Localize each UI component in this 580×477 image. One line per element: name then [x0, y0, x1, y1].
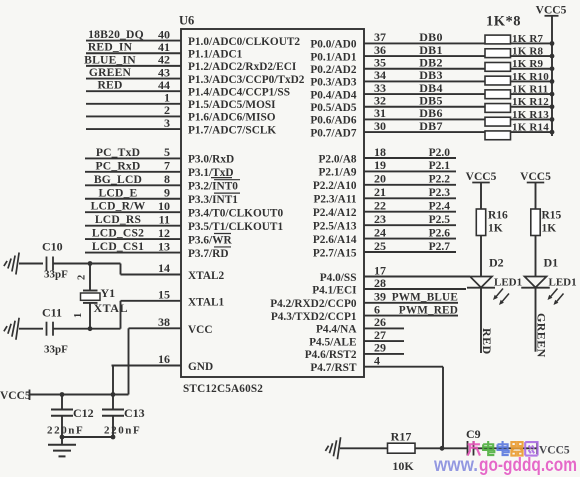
resistor R13 (1K) — [485, 117, 511, 126]
svg-text:P2.4/A12: P2.4/A12 — [313, 207, 357, 219]
svg-text:PC_RxD: PC_RxD — [96, 159, 141, 172]
wire pin 22 net P2.4 — [364, 199, 456, 213]
wire pin 36 net DB1 — [364, 43, 552, 57]
wire ground to R17 — [340, 447, 388, 449]
IC U6 pin label P4.3/TXD2/CCP1 — [271, 311, 357, 323]
resistor R11 (1K) — [485, 90, 511, 99]
svg-text:1K R14: 1K R14 — [512, 121, 549, 133]
junction dot DB6 / VCC5 rail — [550, 117, 555, 122]
wire pin 18 net P2.0 — [364, 145, 456, 159]
wire pin 5 net PC_TxD — [85, 145, 181, 159]
svg-text:D1: D1 — [544, 256, 559, 270]
IC U6 pin label P2.5/A13 — [313, 220, 357, 232]
svg-text:P4.7/RST: P4.7/RST — [310, 362, 357, 374]
svg-text:P2.0: P2.0 — [429, 147, 451, 159]
crystal Y1 pin 1 label — [73, 313, 84, 318]
wire pin 15 XTAL1 — [121, 287, 182, 301]
junction dot C12 top — [60, 392, 65, 397]
svg-text:4: 4 — [374, 354, 380, 368]
IC U6 pin label P4.7/RST — [310, 362, 357, 374]
wire pin 24 net P2.6 — [364, 225, 456, 239]
svg-text:P0.3/AD3: P0.3/AD3 — [310, 77, 356, 89]
IC U6 pin label P3.0/RxD — [188, 154, 234, 166]
svg-text:1K R9: 1K R9 — [512, 58, 544, 70]
resistor R10 (1K) — [485, 76, 511, 85]
resistor R14 (1K) — [485, 131, 511, 140]
svg-text:1K: 1K — [542, 223, 557, 235]
wire GND drop from pin 16 — [112, 366, 114, 395]
svg-text:GND: GND — [188, 361, 213, 373]
wire pin 13 net LCD_CS1 — [85, 239, 181, 253]
wire ground to C10 — [19, 263, 43, 265]
wire pin 6 net PWM_RED — [364, 302, 458, 316]
watermark www.go-gddq.com — [433, 455, 577, 476]
IC U6 pin label P2.3/A11 — [314, 194, 357, 206]
wire pin 8 net BG_LCD — [85, 172, 181, 186]
svg-text:P2.2/A10: P2.2/A10 — [313, 180, 357, 192]
IC U6 pin label P3.2/INT0 — [188, 180, 240, 193]
svg-text:1K R12: 1K R12 — [512, 96, 549, 108]
svg-text:P1.7/ADC7/SCLK: P1.7/ADC7/SCLK — [188, 124, 276, 136]
svg-text:VCC5: VCC5 — [536, 4, 567, 16]
LED D1 refdes — [544, 256, 559, 270]
svg-text:P2.6: P2.6 — [429, 227, 451, 239]
svg-text:Y1: Y1 — [101, 286, 116, 300]
svg-text:15: 15 — [158, 287, 170, 301]
wire pin 25 net P2.7 — [364, 239, 456, 253]
svg-text:P2.4: P2.4 — [429, 201, 451, 213]
svg-text:U6: U6 — [179, 14, 194, 28]
capacitor C11 (33pF) — [42, 306, 68, 356]
svg-text:P4.6/RST2: P4.6/RST2 — [305, 349, 357, 361]
IC U6 pin label P1.0/ADC0/CLKOUT2 — [188, 36, 300, 48]
crystal Y1 (XTAL) — [81, 264, 101, 329]
power VCC5 label (bottom left) — [0, 390, 31, 403]
watermark colored characters — [468, 441, 538, 456]
resistor R12 (1K) — [485, 104, 511, 113]
wire pin 20 net P2.2 — [364, 172, 456, 186]
resistor R12 value label — [512, 96, 549, 108]
capacitor C9 — [466, 427, 481, 456]
svg-text:P0.4/AD4: P0.4/AD4 — [310, 89, 356, 101]
IC U6 pin label P2.6/A14 — [313, 234, 357, 246]
wire pin 2 — [86, 103, 181, 117]
LED D2 — [467, 277, 509, 306]
svg-text:LCD_CS1: LCD_CS1 — [92, 240, 144, 253]
svg-text:VCC5: VCC5 — [466, 171, 497, 183]
svg-text:P4.1/ECI: P4.1/ECI — [312, 284, 357, 296]
IC U6 pin label P2.1/A9 — [319, 167, 357, 179]
svg-text:PWM_RED: PWM_RED — [399, 304, 458, 316]
wire pin 16 GND — [112, 352, 182, 366]
IC U6 pin label P4.2/RXD2/CCP0 — [270, 298, 357, 310]
junction dot DB3 / VCC5 rail — [550, 79, 555, 84]
svg-text:13: 13 — [158, 239, 170, 253]
wire pin 14 XTAL2 — [121, 261, 182, 275]
svg-text:38: 38 — [158, 315, 170, 329]
svg-text:24: 24 — [374, 225, 386, 239]
svg-text:LCD_E: LCD_E — [98, 186, 137, 199]
svg-text:11: 11 — [159, 212, 170, 226]
svg-text:P3.7/RD: P3.7/RD — [188, 248, 228, 260]
svg-text:P1.2/ADC2/RxD2/ECI: P1.2/ADC2/RxD2/ECI — [188, 61, 297, 73]
LED D1 — [521, 277, 563, 306]
IC U6 pin label P2.0/A8 — [319, 153, 357, 165]
wire R17 to reset node — [415, 447, 442, 449]
junction dot C13 top — [111, 392, 116, 397]
svg-text:VCC: VCC — [188, 324, 212, 336]
resistor R7 value label — [512, 33, 544, 45]
resistor R16 (1K) — [476, 209, 508, 236]
resistor R13 value label — [512, 109, 549, 121]
wire pin 1 — [86, 91, 181, 105]
svg-text:VCC5: VCC5 — [520, 171, 551, 183]
svg-text:P2.1: P2.1 — [429, 160, 451, 172]
svg-text:GREEN: GREEN — [89, 66, 132, 79]
wire reset node to C9 — [442, 447, 468, 449]
wire VCC5 rail bottom — [30, 394, 129, 396]
ground (C10) — [4, 253, 19, 275]
IC U6 pin label P2.4/A12 — [313, 207, 357, 219]
IC U6 pin label XTAL1 — [188, 297, 225, 309]
svg-text:P0.5/AD5: P0.5/AD5 — [310, 102, 356, 114]
capacitor C12 (220nF) — [47, 395, 94, 438]
wire pin 35 net DB2 — [364, 56, 552, 70]
IC U6 pin label P3.6/WR — [188, 234, 232, 247]
wire pin 29 — [364, 341, 404, 355]
svg-text:5: 5 — [164, 145, 170, 159]
svg-text:P2.2: P2.2 — [429, 174, 451, 186]
power VCC5 rail (resistor pack) — [536, 4, 567, 136]
wire node to XTAL2 step — [90, 264, 121, 275]
svg-text:30: 30 — [374, 119, 386, 133]
resistor R9 (1K) — [485, 62, 511, 71]
IC U6 pin label P1.7/ADC7/SCLK — [188, 124, 276, 136]
svg-text:P2.6/A14: P2.6/A14 — [313, 234, 357, 246]
svg-text:RED_IN: RED_IN — [88, 41, 133, 54]
IC U6 pin label P4.0/SS — [320, 272, 357, 284]
svg-text:P1.6/ADC6/MISO: P1.6/ADC6/MISO — [188, 112, 276, 124]
wire pin 10 net LCD_R/W — [85, 199, 181, 213]
ground (bottom rail) — [48, 437, 76, 456]
svg-text:P4.4/NA: P4.4/NA — [316, 324, 357, 336]
svg-text:RED: RED — [97, 79, 122, 92]
svg-text:C10: C10 — [42, 240, 63, 254]
ground (C11) — [4, 318, 19, 340]
svg-text:C9: C9 — [466, 427, 481, 441]
IC U6 pin label P1.4/ADC4/CCP1/SS — [188, 86, 290, 98]
wire pin 7 net PC_RxD — [85, 159, 181, 173]
svg-text:1K R13: 1K R13 — [512, 109, 549, 121]
capacitor C10 (33pF) — [42, 240, 68, 281]
wire pin 12 net LCD_CS2 — [85, 226, 181, 240]
svg-text:R17: R17 — [391, 430, 412, 444]
IC U6 refdes label — [179, 14, 194, 28]
svg-text:P2.7: P2.7 — [429, 241, 451, 253]
wire C9 to VCC5 — [474, 443, 538, 455]
wire pin 28 — [364, 276, 466, 290]
IC U6 pin label P0.6/AD6 — [310, 115, 356, 127]
wire pin 43 net GREEN — [86, 65, 181, 79]
svg-text:21: 21 — [374, 185, 386, 199]
svg-text:P4.0/SS: P4.0/SS — [320, 272, 357, 284]
wire VCC drop to pin 38 — [128, 328, 130, 394]
IC U6 pin label P4.6/RST2 — [305, 349, 357, 361]
IC U6 pin label P4.1/ECI — [312, 284, 357, 296]
crystal Y1 refdes — [101, 286, 116, 300]
IC U6 pin label P4.5/ALE — [309, 336, 356, 348]
svg-text:P3.6/WR: P3.6/WR — [188, 234, 232, 246]
junction dot DB4 / VCC5 rail — [550, 92, 555, 97]
svg-text:18: 18 — [374, 145, 386, 159]
wire pin 27 — [364, 328, 404, 342]
resistor R8 (1K) — [485, 49, 511, 58]
svg-text:P2.3: P2.3 — [429, 187, 451, 199]
wire pin 4 — [364, 354, 443, 368]
svg-text:1: 1 — [73, 313, 84, 318]
svg-text:P4.2/RXD2/CCP0: P4.2/RXD2/CCP0 — [270, 298, 357, 310]
wire pin 32 net DB5 — [364, 94, 552, 108]
svg-text:1K R8: 1K R8 — [512, 45, 544, 57]
wire pin 41 net RED_IN — [86, 40, 181, 54]
svg-text:7: 7 — [164, 159, 170, 173]
svg-text:P0.0/AD0: P0.0/AD0 — [310, 39, 356, 51]
IC U6 pin label P0.1/AD1 — [310, 51, 356, 63]
svg-text:BG_LCD: BG_LCD — [94, 173, 142, 186]
svg-text:BLUE_IN: BLUE_IN — [84, 53, 136, 66]
crystal Y1 label XTAL — [94, 301, 128, 315]
power VCC5 label (reset) — [539, 445, 570, 457]
IC U6 pin label P0.4/AD4 — [310, 89, 356, 101]
power VCC5 (R15) — [520, 171, 551, 209]
wire pin 31 net DB6 — [364, 106, 552, 120]
wire pin 26 — [364, 315, 404, 329]
wire pin 11 net LCD_RS — [85, 212, 181, 226]
wire RST pin 4 down to reset node — [442, 367, 444, 449]
wire node to XTAL1 step — [90, 301, 121, 329]
wire R15 to D1 — [535, 236, 537, 277]
svg-text:1K R10: 1K R10 — [512, 71, 549, 83]
resistor R17 (10K) — [388, 430, 416, 474]
svg-text:9: 9 — [164, 186, 170, 200]
svg-text:C13: C13 — [124, 406, 145, 420]
wire pin 37 net DB0 — [364, 30, 552, 44]
svg-text:20: 20 — [374, 172, 386, 186]
wire pin 17 — [364, 263, 470, 277]
svg-text:www.: www. — [433, 455, 478, 476]
svg-text:33pF: 33pF — [44, 269, 68, 281]
svg-text:220nF: 220nF — [47, 425, 84, 437]
IC U6 pin label P3.4/T0/CLKOUT0 — [188, 208, 283, 220]
svg-text:23: 23 — [374, 212, 386, 226]
wire C11 to node — [53, 328, 90, 330]
junction dot DB7 / VCC5 rail — [550, 130, 555, 135]
svg-text:P4.5/ALE: P4.5/ALE — [309, 336, 356, 348]
svg-text:P4.3/TXD2/CCP1: P4.3/TXD2/CCP1 — [271, 311, 357, 323]
IC U6 pin label P3.1/TxD — [188, 167, 234, 179]
IC U6 pin label P1.5/ADC5/MOSI — [188, 99, 276, 111]
svg-text:LED1: LED1 — [494, 276, 522, 288]
svg-text:go-gddq.com: go-gddq.com — [479, 455, 577, 476]
IC U6 pin label P0.2/AD2 — [310, 64, 356, 76]
svg-text:DB7: DB7 — [419, 119, 443, 133]
IC U6 pin label P4.4/NA — [316, 324, 357, 336]
svg-text:C12: C12 — [73, 406, 94, 420]
svg-text:P1.4/ADC4/CCP1/SS: P1.4/ADC4/CCP1/SS — [188, 86, 290, 98]
svg-text:P0.6/AD6: P0.6/AD6 — [310, 115, 356, 127]
svg-text:P2.3/A11: P2.3/A11 — [314, 194, 357, 206]
resistor R14 value label — [512, 121, 549, 133]
IC U6 pin label P0.5/AD5 — [310, 102, 356, 114]
IC U6 pin label P3.5/T1/CLKOUT1 — [188, 221, 283, 233]
wire R16 to D2 — [480, 236, 482, 277]
svg-text:2: 2 — [77, 275, 88, 280]
wire pin 42 net BLUE_IN — [84, 53, 181, 67]
svg-text:PWM_BLUE: PWM_BLUE — [392, 292, 458, 304]
resistor R11 value label — [512, 83, 548, 95]
wire pin 21 net P2.3 — [364, 185, 456, 199]
svg-text:LCD_RS: LCD_RS — [95, 213, 141, 226]
LED D2 value label LED1 — [494, 276, 522, 288]
svg-text:220nF: 220nF — [104, 425, 141, 437]
svg-text:PC_TxD: PC_TxD — [96, 146, 140, 159]
wire pin 38 VCC — [129, 315, 182, 329]
ground (reset) — [325, 437, 340, 459]
junction dot DB2 / VCC5 rail — [550, 66, 555, 71]
svg-text:1K: 1K — [488, 223, 503, 235]
svg-text:P0.2/AD2: P0.2/AD2 — [310, 64, 356, 76]
wire pin 40 net 18B20_DQ — [86, 27, 181, 41]
svg-text:P1.0/ADC0/CLKOUT2: P1.0/ADC0/CLKOUT2 — [188, 36, 300, 48]
svg-text:P3.0/RxD: P3.0/RxD — [188, 154, 234, 166]
IC U6 pin label XTAL2 — [188, 270, 225, 282]
svg-text:STC12C5A60S2: STC12C5A60S2 — [183, 383, 263, 395]
svg-text:VCC5: VCC5 — [0, 390, 31, 402]
svg-text:8: 8 — [164, 172, 170, 186]
svg-text:18B20_DQ: 18B20_DQ — [88, 28, 144, 41]
svg-text:XTAL2: XTAL2 — [188, 270, 225, 282]
resistor R15 (1K) — [531, 209, 562, 236]
IC U6 pin label P3.3/INT1 — [188, 193, 240, 206]
svg-text:22: 22 — [374, 199, 386, 213]
svg-text:RED: RED — [480, 328, 494, 355]
junction dot C12 bottom — [60, 435, 65, 440]
wire pin 39 net PWM_BLUE — [364, 290, 458, 304]
svg-text:1K*8: 1K*8 — [486, 14, 521, 30]
svg-text:16: 16 — [158, 352, 170, 366]
IC U6 pin label P0.7/AD7 — [310, 127, 356, 139]
IC U6 STC12C5A60S2 body — [181, 29, 364, 377]
IC U6 pin label P0.0/AD0 — [310, 39, 356, 51]
wire ground to C11 — [19, 328, 43, 330]
svg-text:R15: R15 — [542, 210, 562, 222]
wire pin 44 net RED — [86, 78, 181, 92]
svg-text:33pF: 33pF — [44, 344, 68, 356]
capacitor C13 (220nF) — [102, 395, 145, 438]
junction dot C13 bottom — [111, 435, 116, 440]
junction dot DB0 / VCC5 rail — [550, 41, 555, 46]
svg-text:P1.3/ADC3/CCP0/TxD2: P1.3/ADC3/CCP0/TxD2 — [188, 74, 305, 86]
node crystal top junction — [88, 261, 93, 266]
IC U6 pin label P1.6/ADC6/MISO — [188, 112, 276, 124]
svg-text:P3.2/INT0: P3.2/INT0 — [188, 181, 238, 193]
svg-text:10: 10 — [158, 199, 170, 213]
wire D1 cathode net GREEN — [535, 288, 549, 358]
svg-text:P2.5/A13: P2.5/A13 — [313, 220, 357, 232]
wire pin 9 net LCD_E — [85, 186, 181, 200]
svg-text:D2: D2 — [489, 256, 504, 270]
node crystal bottom junction — [88, 326, 93, 331]
svg-text:P2.1/A9: P2.1/A9 — [319, 167, 357, 179]
svg-text:1K R7: 1K R7 — [512, 33, 544, 45]
svg-text:19: 19 — [374, 158, 386, 172]
svg-text:GREEN: GREEN — [535, 313, 549, 358]
svg-text:P2.7/A15: P2.7/A15 — [313, 247, 357, 259]
junction dot reset node — [440, 446, 445, 451]
IC U6 pin label P2.7/A15 — [313, 247, 357, 259]
resistor R9 value label — [512, 58, 544, 70]
junction dot DB5 / VCC5 rail — [550, 104, 555, 109]
svg-text:P2.0/A8: P2.0/A8 — [319, 153, 357, 165]
svg-text:R16: R16 — [488, 210, 508, 222]
resistor R7 (1K) — [485, 35, 511, 44]
wire pin 30 net DB7 — [364, 119, 552, 133]
IC U6 pin label GND — [188, 361, 213, 373]
wire C10 to node X2 — [53, 263, 90, 265]
svg-text:LCD_R/W: LCD_R/W — [91, 200, 146, 213]
resistor pack label 1K*8 — [486, 14, 521, 30]
wire ground rail bottom — [62, 436, 113, 438]
svg-text:12: 12 — [158, 226, 170, 240]
LED D2 refdes — [489, 256, 504, 270]
wire pin 33 net DB4 — [364, 81, 552, 95]
svg-text:28: 28 — [374, 276, 386, 290]
svg-text:P1.1/ADC1: P1.1/ADC1 — [188, 49, 243, 61]
LED D1 value label LED1 — [549, 276, 577, 288]
svg-text:1K R11: 1K R11 — [512, 83, 548, 95]
IC U6 pin label P1.3/ADC3/CCP0/TxD2 — [188, 74, 305, 86]
IC U6 part number label STC12C5A60S2 — [183, 383, 263, 395]
IC U6 pin label P1.1/ADC1 — [188, 49, 243, 61]
junction dot DB1 / VCC5 rail — [550, 54, 555, 59]
wire pin 3 — [86, 116, 181, 130]
IC U6 pin label P1.2/ADC2/RxD2/ECI — [188, 61, 297, 73]
resistor R10 value label — [512, 71, 549, 83]
IC U6 pin label P2.2/A10 — [313, 180, 357, 192]
svg-text:P1.5/ADC5/MOSI: P1.5/ADC5/MOSI — [188, 99, 276, 111]
svg-text:P2.5: P2.5 — [429, 214, 451, 226]
svg-text:P0.1/AD1: P0.1/AD1 — [310, 51, 356, 63]
wire pin 23 net P2.5 — [364, 212, 456, 226]
crystal Y1 pin 2 label — [77, 275, 88, 280]
power VCC5 (R16) — [466, 171, 497, 209]
svg-text:C11: C11 — [42, 306, 62, 320]
svg-text:LED1: LED1 — [549, 276, 577, 288]
svg-text:XTAL1: XTAL1 — [188, 297, 225, 309]
wire D2 cathode net RED — [480, 288, 494, 355]
resistor R8 value label — [512, 45, 544, 57]
svg-text:P0.7/AD7: P0.7/AD7 — [310, 127, 356, 139]
svg-text:14: 14 — [158, 261, 170, 275]
IC U6 pin label P0.3/AD3 — [310, 77, 356, 89]
svg-text:P3.3/INT1: P3.3/INT1 — [188, 194, 238, 206]
svg-text:25: 25 — [374, 239, 386, 253]
svg-text:3: 3 — [164, 116, 170, 130]
svg-text:10K: 10K — [392, 459, 414, 473]
svg-text:XTAL: XTAL — [94, 301, 128, 315]
wire pin 19 net P2.1 — [364, 158, 456, 172]
IC U6 pin label VCC — [188, 324, 212, 336]
